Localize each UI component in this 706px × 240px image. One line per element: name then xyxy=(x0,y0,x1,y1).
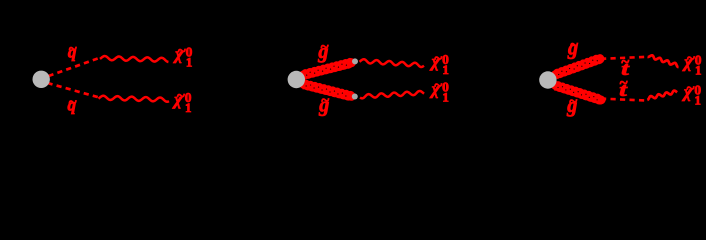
svg-text:~: ~ xyxy=(321,39,329,55)
svg-text:~: ~ xyxy=(620,75,628,91)
svg-text:1: 1 xyxy=(442,89,449,104)
svg-text:1: 1 xyxy=(442,62,449,77)
svg-text:~: ~ xyxy=(69,42,77,58)
svg-text:1: 1 xyxy=(695,92,702,107)
svg-text:1: 1 xyxy=(695,63,702,78)
svg-text:~: ~ xyxy=(69,95,77,111)
svg-text:~: ~ xyxy=(570,38,578,54)
svg-text:1: 1 xyxy=(186,55,193,70)
svg-text:~: ~ xyxy=(621,55,629,71)
svg-text:1: 1 xyxy=(185,100,192,115)
svg-text:~: ~ xyxy=(569,94,577,110)
svg-text:~: ~ xyxy=(321,93,329,109)
